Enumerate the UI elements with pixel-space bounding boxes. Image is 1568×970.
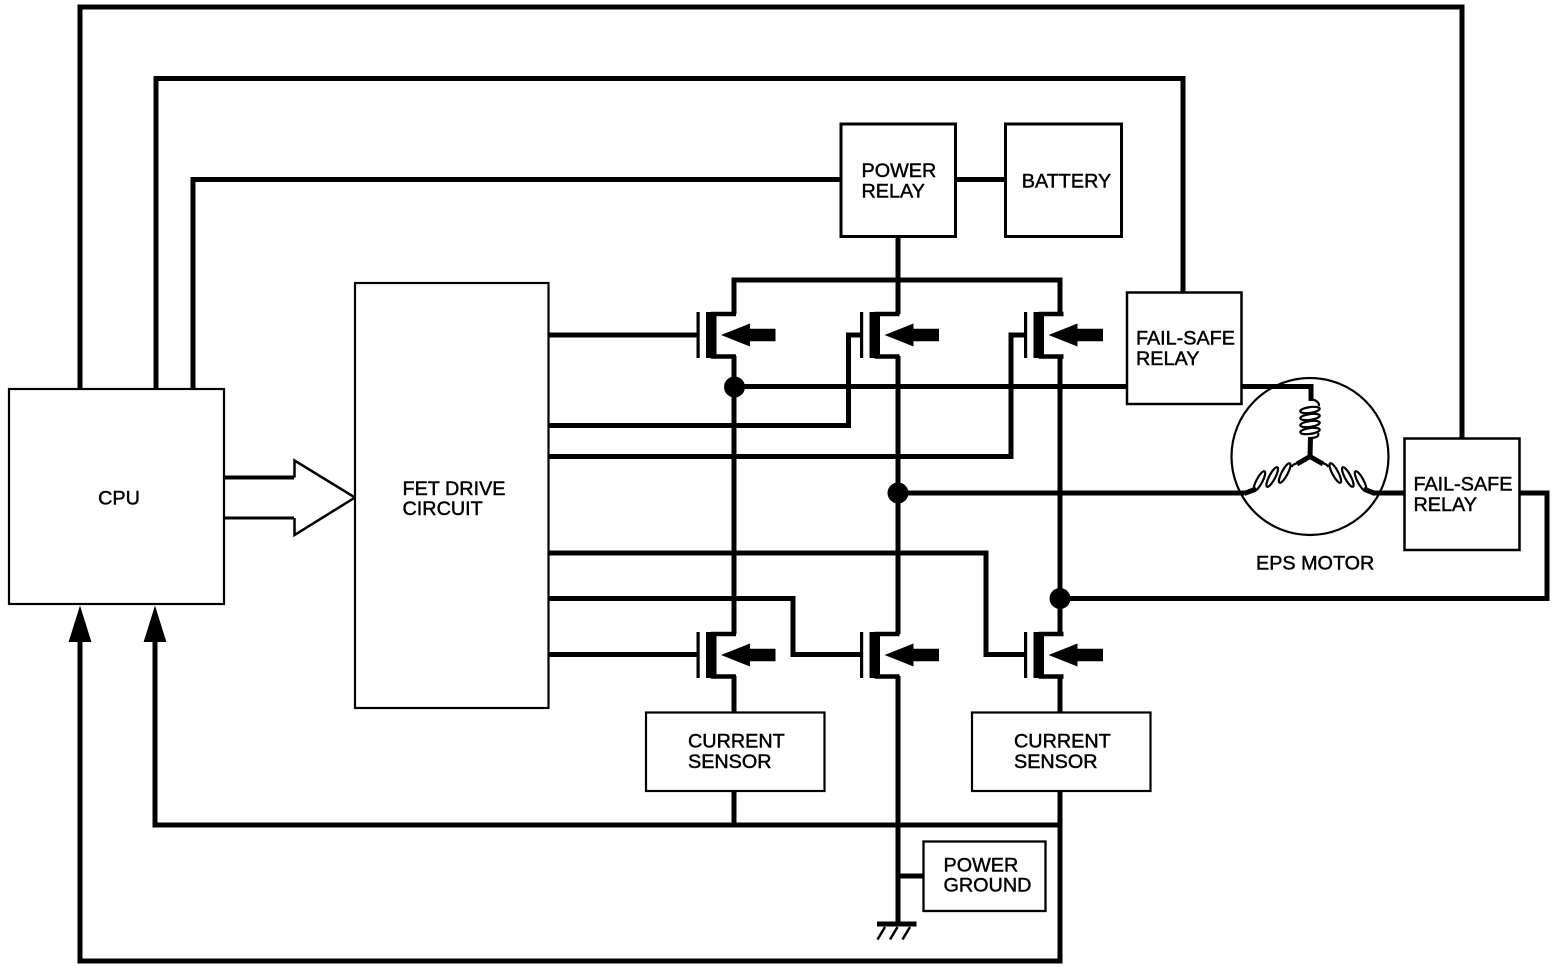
wire phase W: Q3 source down to node: [1058, 356, 1063, 599]
transistor Q6 (bottom right FET): [1024, 632, 1103, 678]
wire motor right coil to fail-safe relay 2: [1374, 491, 1405, 496]
node A: phase U junction: [724, 377, 745, 398]
wire gate Q3: [548, 335, 1025, 457]
EPS motor right winding: [1310, 457, 1375, 494]
transistor Q1 (top left FET): [697, 312, 776, 358]
wire current sensor 1 to sense bus: [732, 790, 737, 828]
EPS motor top winding: [1300, 399, 1320, 457]
current sensor 1 box: [646, 713, 825, 792]
power ground box: [924, 842, 1046, 912]
fail-safe relay 1 box: [1127, 293, 1242, 405]
wire gate Q4: [548, 652, 697, 657]
wire outer frame: CPU top to fail-safe relay 2: [80, 7, 1462, 439]
transistor Q3 (top right FET): [1024, 312, 1103, 358]
wire Q5 source to power ground: [896, 676, 901, 922]
wire power ground stub: [898, 874, 924, 879]
svg-text:CURRENT: CURRENT: [1014, 731, 1111, 753]
transistor Q5 (bottom middle FET): [860, 632, 939, 678]
node C: phase W junction: [1050, 588, 1071, 609]
wire Q4 source to current sensor 1: [732, 676, 737, 713]
svg-text:SENSOR: SENSOR: [1014, 751, 1098, 773]
transistor Q2 (top middle FET): [860, 312, 939, 358]
svg-text:CIRCUIT: CIRCUIT: [403, 498, 483, 520]
transistor Q4 (bottom left FET): [697, 632, 776, 678]
current sensor 2 box: [972, 713, 1151, 792]
wire frame 2: CPU top to fail-safe relay 1: [156, 79, 1183, 391]
svg-text:EPS MOTOR: EPS MOTOR: [1256, 553, 1374, 575]
wire current sensor 2 down to bottom frame: [1058, 790, 1063, 964]
wire gate Q1: [548, 333, 697, 338]
wire fail-safe relay 1 to motor top coil: [1240, 387, 1311, 402]
EPS motor left winding: [1244, 457, 1310, 494]
wire B+ rail: [734, 280, 1060, 314]
svg-text:RELAY: RELAY: [1414, 494, 1477, 516]
svg-text:BATTERY: BATTERY: [1022, 171, 1111, 193]
svg-text:CPU: CPU: [98, 488, 140, 510]
svg-text:RELAY: RELAY: [1136, 348, 1199, 370]
power relay box: [841, 124, 956, 237]
svg-text:FAIL-SAFE: FAIL-SAFE: [1136, 328, 1235, 350]
svg-text:POWER: POWER: [862, 160, 937, 182]
wire gate Q5: [548, 599, 861, 655]
wire sense bus to CPU arrow 2: [155, 640, 1063, 825]
wire Q4 drain riser: [732, 390, 737, 634]
svg-text:FET DRIVE: FET DRIVE: [403, 478, 506, 500]
node B: phase V junction: [888, 483, 909, 504]
wire node W to fail-safe relay 2: [1060, 493, 1547, 599]
wire frame 3: CPU top to power relay: [193, 180, 841, 391]
wire power relay to battery: [954, 177, 1006, 182]
wire Q6 drain riser: [1058, 600, 1063, 634]
fail-safe relay 2 box: [1405, 439, 1520, 551]
block arrow CPU to FET drive circuit: [224, 461, 355, 536]
wire bottom frame to CPU arrow 1: [80, 640, 1063, 961]
wire gate Q2: [548, 335, 861, 426]
svg-text:SENSOR: SENSOR: [688, 751, 772, 773]
svg-text:POWER: POWER: [944, 855, 1019, 877]
wire power relay drop to bridge rail: [896, 236, 901, 314]
battery box: [1006, 124, 1122, 237]
CPU box: [9, 389, 224, 604]
svg-text:CURRENT: CURRENT: [688, 731, 785, 753]
ground: [877, 924, 917, 940]
wire gate Q6: [548, 553, 1025, 655]
svg-text:GROUND: GROUND: [944, 875, 1032, 897]
svg-text:FAIL-SAFE: FAIL-SAFE: [1414, 474, 1513, 496]
wire phase V: Q2 source to EPS motor: [898, 356, 1244, 493]
FET drive circuit box: [355, 283, 549, 708]
wire phase U: Q1 source to fail-safe relay 1: [734, 356, 1127, 387]
wire Q6 source to current sensor 2: [1058, 676, 1063, 713]
EPS motor circle: [1232, 378, 1389, 535]
CPU input arrow 2: [144, 606, 167, 643]
svg-text:RELAY: RELAY: [862, 181, 925, 203]
wire Q5 drain riser: [896, 495, 901, 634]
CPU input arrow 1: [69, 606, 92, 643]
